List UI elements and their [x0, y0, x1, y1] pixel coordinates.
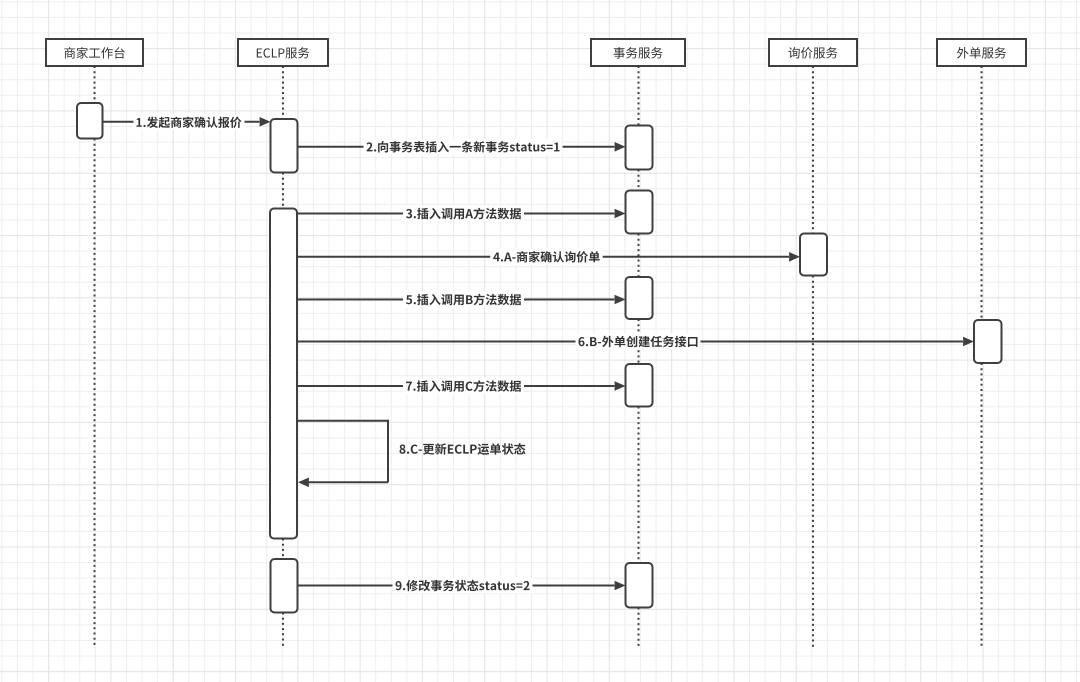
lifeline 外单服务 [981, 66, 983, 648]
activation 事务 T3 [626, 277, 653, 319]
activation 询价 Q1 [800, 234, 827, 276]
participant 询价服务 [769, 39, 857, 66]
message 8.C-更新ECLP运单状态 self-loop [297, 420, 526, 487]
activation ECLP E1 [271, 119, 298, 173]
participant 商家工作台 [46, 39, 143, 66]
activation 事务 T2 [626, 191, 653, 234]
message 9.修改事务状态status=2 [298, 578, 626, 594]
message 5.插入调用B方法数据 [297, 292, 626, 308]
lifeline 询价服务 [812, 66, 814, 648]
activation ECLP E3 [271, 559, 298, 613]
participant 外单服务 [937, 39, 1026, 66]
activation 事务 T1 [626, 126, 653, 170]
activation 商家工作台 A1 [77, 103, 103, 139]
message 2.向事务表插入一条新事务status=1 [298, 139, 626, 155]
activation 外单 W1 [974, 320, 1002, 363]
message 1.发起商家确认报价 [103, 114, 271, 130]
message 7.插入调用C方法数据 [297, 378, 626, 394]
message 4.A-商家确认询价单 [297, 249, 800, 265]
activation 事务 T5 [626, 563, 653, 608]
lifeline 商家工作台 [94, 66, 96, 645]
participant 事务服务 [591, 39, 685, 66]
message 6.B-外单创建任务接口 [297, 334, 974, 350]
participant ECLP服务 [238, 39, 328, 66]
activation ECLP E2 [270, 209, 297, 539]
message 3.插入调用A方法数据 [297, 206, 626, 222]
lifeline 事务服务 [638, 66, 640, 648]
lifeline ECLP服务 [282, 66, 284, 648]
activation 事务 T4 [626, 364, 653, 407]
